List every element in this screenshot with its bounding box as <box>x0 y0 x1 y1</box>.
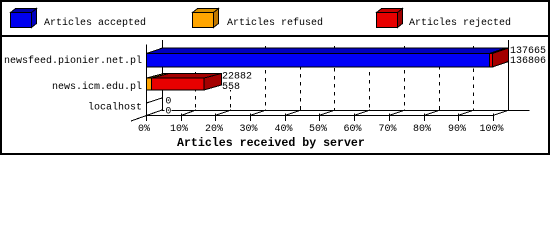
dashed gridlines 10%-90% (back plane) <box>196 46 474 110</box>
legend cube orange (refused) <box>193 9 219 28</box>
svg-text:100%: 100% <box>479 124 503 135</box>
svg-text:136806: 136806 <box>510 56 546 67</box>
bar 2 news.icm.edu.pl: orange top sliver <box>147 74 170 79</box>
back baseline (gap at localhost zero) <box>162 110 165 112</box>
svg-text:30%: 30% <box>239 124 257 135</box>
svg-text:22882: 22882 <box>222 72 252 83</box>
svg-text:Articles accepted: Articles accepted <box>44 17 146 29</box>
svg-text:newsfeed.pionier.net.pl: newsfeed.pionier.net.pl <box>4 55 142 67</box>
svg-text:90%: 90% <box>448 124 466 135</box>
bar 1 blue front face (accepted) <box>147 54 490 68</box>
bar 1 red front face (rejected) <box>490 54 493 68</box>
svg-text:70%: 70% <box>378 124 396 135</box>
svg-text:Articles refused: Articles refused <box>227 17 323 29</box>
back right edge (100%) <box>508 40 510 110</box>
svg-text:50%: 50% <box>309 124 327 135</box>
bar 3 localhost zero bar top edge <box>147 98 163 103</box>
svg-text:558: 558 <box>222 82 240 93</box>
svg-text:10%: 10% <box>170 124 188 135</box>
bar 2 red top face <box>152 74 222 79</box>
legend cube blue (accepted) <box>11 9 37 28</box>
svg-text:40%: 40% <box>274 124 292 135</box>
chart: Articles received by server <box>0 0 550 155</box>
bar 2 orange front (accepted tiny) <box>147 78 152 90</box>
outer border <box>1 1 549 154</box>
front axis vertical <box>146 45 148 122</box>
bottom-left 3D corner edge <box>131 110 162 121</box>
svg-text:Articles received by server: Articles received by server <box>177 137 365 150</box>
legend/chart separator line <box>0 35 550 37</box>
svg-text:80%: 80% <box>413 124 431 135</box>
front ticks + 3D connectors each 10% <box>181 110 509 121</box>
svg-text:Articles rejected: Articles rejected <box>409 17 511 29</box>
bar 2 red front face (rejected) <box>152 78 205 90</box>
back axis vertical <box>162 40 164 110</box>
svg-text:60%: 60% <box>343 124 361 135</box>
svg-text:localhost: localhost <box>88 102 142 114</box>
x axis labels <box>138 124 504 135</box>
bar 1 red top face <box>490 48 509 54</box>
svg-text:0%: 0% <box>138 124 150 135</box>
bar 2 red side face <box>204 74 222 91</box>
bar 1 newsfeed.pionier.net.pl: blue top face <box>147 48 506 54</box>
front baseline <box>146 115 494 117</box>
bar 1 red side face <box>493 48 509 67</box>
svg-text:0: 0 <box>165 107 171 118</box>
svg-text:20%: 20% <box>205 124 223 135</box>
legend cube red (rejected) <box>377 9 403 28</box>
svg-text:news.icm.edu.pl: news.icm.edu.pl <box>52 81 142 93</box>
